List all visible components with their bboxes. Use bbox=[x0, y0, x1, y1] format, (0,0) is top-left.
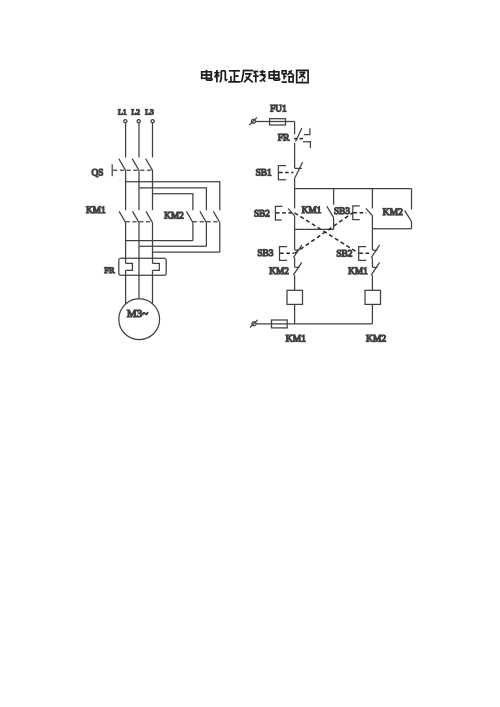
contact KM1 interlock NC blade bbox=[371, 263, 379, 276]
pushbutton SB2 NO blade bbox=[288, 209, 295, 216]
pushbutton SB3 lower actuator E bbox=[280, 247, 288, 261]
svg-text:L2: L2 bbox=[131, 107, 140, 116]
contact SB3 NC stationary tick bbox=[295, 249, 300, 251]
wire top rail bbox=[295, 188, 412, 190]
terminal top-left slash bbox=[249, 117, 257, 125]
title char 电 bbox=[202, 70, 212, 80]
contact KM1 aux upper lead bbox=[333, 189, 335, 205]
RIGHT CONTROL CIRCUIT bbox=[249, 105, 411, 345]
title char 图 bbox=[297, 70, 308, 82]
thermal relay FR heater element phase3 bbox=[153, 263, 160, 270]
wire KM2 pole3 down bbox=[219, 223, 221, 253]
wire terminal to FU1 bbox=[255, 121, 294, 123]
wire merge phase1 bbox=[126, 240, 193, 242]
contact KM2 aux lower lead bbox=[411, 221, 413, 228]
switch QS blade pole 3 bbox=[146, 159, 153, 171]
pushbutton SB1 actuator E bbox=[278, 166, 286, 180]
title char 电 bbox=[269, 70, 279, 80]
terminal bottom-left bbox=[252, 322, 256, 326]
svg-text:SB3: SB3 bbox=[257, 249, 273, 259]
contact SB2 NC blade bbox=[371, 245, 379, 258]
wire QS out phase 1 bbox=[125, 170, 127, 210]
wire FR out phase1 bbox=[125, 270, 127, 304]
wire branch phase1 to KM2 pole3 bbox=[126, 182, 220, 210]
pushbutton SB3 actuator E bbox=[353, 206, 360, 220]
mechanical link SB3 cross dashed bbox=[295, 213, 353, 254]
svg-text:M3~: M3~ bbox=[127, 308, 148, 320]
wire QS out phase 3 bbox=[152, 170, 154, 210]
switch QS blade pole 1 bbox=[119, 159, 126, 171]
svg-text:SB3: SB3 bbox=[334, 207, 350, 217]
wire KM1nc to coil KM2 bbox=[371, 275, 373, 290]
terminal L2 bbox=[137, 120, 140, 123]
wire KM1 pole3 down bbox=[152, 223, 154, 264]
svg-text:KM1: KM1 bbox=[86, 206, 106, 216]
wire terminal to FU2 bbox=[256, 323, 372, 325]
title char 反 bbox=[241, 71, 253, 83]
wire FR to SB1 bbox=[294, 143, 296, 168]
contact KM1 aux lower lead bbox=[333, 218, 335, 230]
wire KM2 pole2 down bbox=[205, 223, 207, 247]
wire L1 to QS bbox=[125, 123, 127, 157]
contactor KM2 linkage dashed bbox=[193, 221, 220, 223]
thermal contact FR actuator hook upper bbox=[304, 128, 310, 134]
contact KM2 interlock NC tick bbox=[295, 266, 300, 268]
contactor KM1 blade pole1 bbox=[119, 211, 126, 222]
thermal contact FR blade bbox=[296, 128, 302, 141]
TITLE 电机正反转电路图 (drawn as strokes) bbox=[202, 70, 308, 83]
svg-text:KM2: KM2 bbox=[366, 333, 386, 344]
wire KM1 pole2 down bbox=[138, 223, 140, 299]
wire merge phase2 bbox=[139, 245, 206, 247]
title char 转 bbox=[253, 70, 266, 83]
wire L2 to QS bbox=[138, 123, 140, 157]
wire rail to SB2 contact bbox=[294, 189, 296, 209]
title char 机 bbox=[214, 70, 227, 82]
wire SB2nc to KM1nc bbox=[371, 258, 373, 267]
contactor KM2 blade pole3 bbox=[213, 211, 220, 222]
wire KM2 pole1 down bbox=[192, 223, 194, 241]
svg-text:KM1: KM1 bbox=[348, 267, 368, 277]
svg-text:SB2: SB2 bbox=[336, 250, 352, 260]
mechanical link SB2 cross dashed bbox=[295, 213, 359, 253]
svg-text:KM1: KM1 bbox=[286, 333, 306, 344]
svg-text:SB2: SB2 bbox=[254, 210, 270, 220]
wire SB3 down bbox=[371, 216, 373, 250]
thermal contact FR actuator hook lower bbox=[303, 142, 311, 148]
wire FR out phase3 bbox=[152, 270, 154, 304]
contactor KM1 blade pole3 bbox=[146, 211, 153, 222]
svg-text:SB1: SB1 bbox=[256, 169, 272, 179]
svg-text:FR: FR bbox=[104, 265, 115, 275]
wire branch phase3 to KM2 pole1 bbox=[153, 194, 193, 210]
coil KM1 bbox=[287, 290, 303, 304]
wire SB1 to rail bbox=[294, 178, 296, 189]
contactor KM1 linkage dashed bbox=[126, 221, 153, 223]
pushbutton SB2 actuator E bbox=[275, 206, 282, 220]
wire KM2nc to coil KM1 bbox=[294, 275, 296, 290]
pushbutton SB2 linkage dashed bbox=[276, 212, 294, 214]
svg-text:L1: L1 bbox=[118, 107, 127, 116]
fuse FU1 body bbox=[270, 119, 286, 125]
contact KM2 interlock NC blade bbox=[293, 262, 301, 275]
motor M1 circle bbox=[119, 299, 160, 340]
wire KM1 aux join bbox=[295, 228, 334, 230]
coil KM2 bbox=[365, 290, 381, 304]
contact KM1 interlock NC tick bbox=[372, 266, 377, 268]
fuse FU2 body bbox=[272, 320, 288, 328]
switch QS handle bbox=[111, 164, 113, 176]
wire SB2 down through SB3nc to KM2nc bbox=[294, 216, 296, 250]
terminal L1 bbox=[124, 120, 127, 123]
thermal contact FR linkage dashes bbox=[294, 138, 303, 140]
pushbutton SB1 linkage dashed bbox=[279, 172, 294, 174]
pushbutton SB3 linkage dashed bbox=[353, 212, 366, 214]
terminal bottom-left slash bbox=[250, 320, 258, 328]
pushbutton SB1 NC blade bbox=[295, 162, 303, 178]
thermal relay FR heater element phase1 bbox=[126, 263, 133, 270]
contact KM2 aux NO blade bbox=[405, 211, 412, 222]
svg-text:KM2: KM2 bbox=[383, 207, 403, 218]
contact KM2 aux upper lead bbox=[411, 189, 413, 210]
contact SB2 NC stationary tick bbox=[372, 249, 377, 251]
wire coil KM1 to bottom rail bbox=[294, 304, 296, 324]
pushbutton SB2 lower linkage dashed bbox=[359, 252, 372, 254]
svg-text:L3: L3 bbox=[145, 107, 154, 116]
svg-text:FU1: FU1 bbox=[270, 105, 287, 115]
pushbutton SB3 NO blade bbox=[366, 209, 373, 216]
svg-text:KM1: KM1 bbox=[302, 206, 322, 216]
wire L3 to QS bbox=[152, 123, 154, 157]
switch QS linkage dashed bbox=[113, 169, 153, 171]
contactor KM2 blade pole2 bbox=[200, 211, 207, 222]
terminal L3 bbox=[151, 120, 154, 123]
svg-text:KM2: KM2 bbox=[269, 267, 289, 277]
wire rail to SB3 contact bbox=[371, 189, 373, 209]
LEFT POWER CIRCUIT bbox=[86, 107, 220, 339]
pushbutton SB3 lower linkage dashed bbox=[280, 252, 294, 254]
thermal relay FR box bbox=[119, 258, 166, 275]
svg-text:QS: QS bbox=[92, 169, 104, 179]
wire SB3nc to KM2nc bbox=[294, 258, 296, 267]
switch QS blade pole 2 bbox=[132, 159, 139, 171]
terminal top-left bbox=[251, 119, 255, 123]
wire FU1 to corner bbox=[294, 122, 296, 135]
title char 正 bbox=[228, 71, 240, 82]
svg-text:KM2: KM2 bbox=[164, 212, 184, 222]
contact SB3 NC blade bbox=[293, 245, 301, 258]
pushbutton SB2 lower actuator E bbox=[359, 247, 367, 261]
pushbutton SB1 NC stationary tick bbox=[295, 167, 302, 169]
title char 路 bbox=[282, 70, 294, 82]
wire branch phase2 to KM2 pole2 bbox=[139, 188, 206, 210]
wire QS out phase 2 bbox=[138, 170, 140, 210]
contactor KM1 blade pole2 bbox=[133, 211, 140, 222]
wire merge phase3 bbox=[153, 251, 220, 253]
contactor KM2 blade pole1 bbox=[186, 211, 193, 222]
wire coil KM2 to bottom rail bbox=[371, 304, 373, 324]
wire KM1 pole1 down bbox=[125, 223, 127, 264]
wire KM2 aux join bbox=[372, 228, 411, 230]
contact KM1 aux NO blade bbox=[327, 206, 334, 217]
svg-text:FR: FR bbox=[278, 133, 290, 144]
